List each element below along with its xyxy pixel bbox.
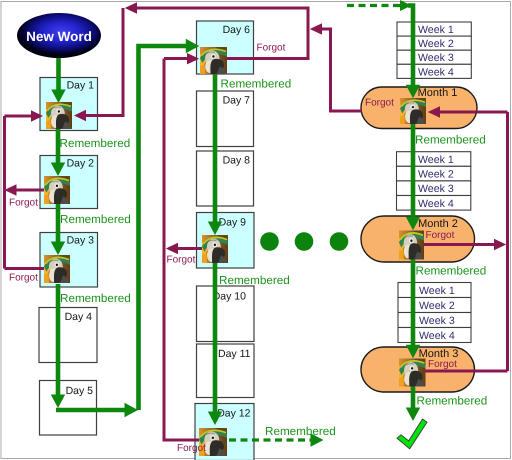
week table set 3 row Week 1 xyxy=(398,283,471,298)
wire right loop vertical xyxy=(506,112,509,371)
parrot icon Day 12 xyxy=(199,428,227,456)
week table set 2 row Week 1 xyxy=(397,152,471,167)
svg-text:Week 2: Week 2 xyxy=(418,38,454,50)
wire Day 2 to Day 3 xyxy=(56,204,61,243)
wire Day 12 forgot horizontal xyxy=(163,439,201,442)
svg-text:Forgot: Forgot xyxy=(9,198,38,209)
parrot icon Month 3 xyxy=(399,359,426,387)
day box Day 8 xyxy=(197,151,254,206)
wire into Day 1 from left xyxy=(5,115,33,118)
arrowhead Day 9 forgot pointing left xyxy=(166,243,178,254)
svg-text:Remembered: Remembered xyxy=(415,134,486,147)
arrowhead into Day 1 icon down xyxy=(51,90,65,104)
wire Day 3 forgot horizontal xyxy=(5,267,45,270)
wire Day 3 to Day 5 xyxy=(56,284,61,395)
svg-text:Week 3: Week 3 xyxy=(418,183,454,195)
svg-text:Day 1: Day 1 xyxy=(67,80,95,92)
svg-text:Remembered: Remembered xyxy=(417,395,488,408)
svg-text:Day 5: Day 5 xyxy=(66,385,94,397)
wire Month 1 to Month 2 xyxy=(411,124,416,218)
green dashed wires xyxy=(229,6,400,441)
week table set 3 row Week 3 xyxy=(398,313,471,328)
svg-text:Day 8: Day 8 xyxy=(223,155,251,167)
wire into Day 6 icon xyxy=(164,57,188,60)
svg-text:Forgot: Forgot xyxy=(365,98,394,109)
month stadium Month 2 xyxy=(361,216,475,262)
wire Day 2 forgot horizontal xyxy=(15,189,44,192)
svg-text:Week 4: Week 4 xyxy=(418,198,454,210)
ellipsis dot 1 xyxy=(260,232,279,251)
maroon arrowheads xyxy=(4,2,506,254)
svg-text:Forgot: Forgot xyxy=(428,359,457,370)
parrot icon Day 1 xyxy=(46,102,72,129)
arrowhead into Day 3 icon down xyxy=(51,242,65,256)
svg-text:Remembered: Remembered xyxy=(265,425,336,438)
day box Day 12 xyxy=(195,404,254,460)
week table set 2 row Week 3 xyxy=(397,181,471,196)
day box Day 5 xyxy=(40,381,97,436)
wire left loop vertical xyxy=(3,116,6,269)
ellipsis dot 3 xyxy=(330,232,349,251)
parrot icon Day 2 xyxy=(44,176,70,204)
day box Day 10 xyxy=(197,286,255,342)
svg-text:Week 3: Week 3 xyxy=(419,315,455,327)
svg-text:Day 12: Day 12 xyxy=(217,408,250,420)
svg-text:Forgot: Forgot xyxy=(9,273,38,284)
parrot icon Day 9 xyxy=(202,235,228,263)
week table set 1 row Week 1 xyxy=(397,22,471,36)
arrowhead into Day 1 icon from right xyxy=(74,110,86,121)
svg-text:Week 2: Week 2 xyxy=(418,169,454,181)
wire Month 2 forgot horizontal xyxy=(424,243,495,246)
arrowhead Month 2 forgot pointing right xyxy=(494,239,506,250)
arrowhead into Day 2 icon down xyxy=(51,163,65,177)
arrowhead into Day 1 icon from left xyxy=(31,110,43,121)
day box Day 1 xyxy=(40,78,98,131)
wire Day 1 to Day 2 xyxy=(56,129,61,163)
arrowhead into Day 9 icon down xyxy=(208,222,222,236)
week table set 1 row Week 3 xyxy=(397,50,471,64)
day box Day 4 xyxy=(39,308,97,363)
svg-text:Remembered: Remembered xyxy=(60,137,131,150)
svg-text:Forgot: Forgot xyxy=(167,255,196,266)
wire into Month 1 icon from right xyxy=(439,111,508,114)
checkmark done xyxy=(397,419,427,449)
arrowhead Day 5 out pointing right xyxy=(125,403,139,417)
day box Day 2 xyxy=(40,156,98,209)
wire right column top elbow xyxy=(408,6,413,86)
day box Day 6 xyxy=(197,21,254,74)
wire mid loop vertical Day12 to Day6 xyxy=(163,59,166,441)
svg-text:Month 2: Month 2 xyxy=(418,218,458,230)
day box Day 9 xyxy=(197,213,255,269)
wire Day 5 out to feeder xyxy=(56,408,125,413)
month stadium Month 3 xyxy=(361,347,475,392)
arrowhead into Month 2 icon down xyxy=(406,217,420,230)
svg-text:Week 2: Week 2 xyxy=(419,300,455,312)
week table set 3 row Week 2 xyxy=(398,298,471,313)
svg-text:Forgot: Forgot xyxy=(177,443,206,454)
wire Month 1 forgot to Day 6 loop xyxy=(321,29,362,111)
svg-text:Day 10: Day 10 xyxy=(213,291,246,303)
svg-text:Week 1: Week 1 xyxy=(418,154,454,166)
arrowhead into Month 1 icon down xyxy=(406,85,420,98)
week table set 2 row Week 4 xyxy=(397,196,471,211)
wire Day 9 forgot horizontal xyxy=(177,247,203,250)
parrot icon Month 2 xyxy=(399,231,424,260)
svg-text:Remembered: Remembered xyxy=(60,213,131,226)
wire Month 3 forgot horizontal xyxy=(426,370,508,373)
svg-text:Week 4: Week 4 xyxy=(419,330,455,342)
arrowhead into Day 6 icon pointing right xyxy=(187,53,199,64)
svg-text:Day 2: Day 2 xyxy=(67,158,95,170)
svg-text:Remembered: Remembered xyxy=(60,292,131,305)
arrowhead top line pointing left into Day 1 feeder xyxy=(125,2,137,13)
wire Day 6 forgot up and left to Day 1 feeder xyxy=(136,8,308,59)
arrowhead into Month 1 icon pointing left xyxy=(428,106,440,117)
arrowhead into Day 12 down xyxy=(208,412,222,426)
svg-text:Week 4: Week 4 xyxy=(418,66,454,78)
arrowhead Day 2 forgot pointing left xyxy=(4,184,16,195)
arrowhead Day 12 dashed pointing right xyxy=(311,433,324,446)
wire New Word to Day 1 xyxy=(56,57,61,90)
ellipsis dot 2 xyxy=(295,232,314,251)
parrot icon Day 6 xyxy=(200,47,227,74)
arrowhead into Month 3 icon down xyxy=(406,345,420,358)
start ellipse New Word xyxy=(17,13,101,58)
svg-text:Remembered: Remembered xyxy=(221,78,292,91)
svg-text:Day 9: Day 9 xyxy=(219,217,247,229)
svg-text:Week 1: Week 1 xyxy=(418,24,454,36)
day box Day 7 xyxy=(197,91,254,147)
week table set 3 row Week 4 xyxy=(398,328,471,343)
arrowhead final down to checkmark xyxy=(406,408,420,422)
wire Month 2 to Month 3 xyxy=(411,259,416,346)
day box Day 3 xyxy=(40,233,98,288)
wire Day 1 feeder vertical and into icon xyxy=(86,8,123,116)
wire feeder up to Day 6 xyxy=(139,46,187,410)
svg-text:Week 3: Week 3 xyxy=(418,52,454,64)
svg-text:Day 11: Day 11 xyxy=(218,348,251,360)
parrot icon Month 1 xyxy=(400,98,426,124)
svg-text:New Word: New Word xyxy=(26,29,92,44)
svg-text:Week 1: Week 1 xyxy=(419,285,455,297)
arrowhead dashed top pointing right xyxy=(400,0,412,11)
month stadium Month 1 xyxy=(361,87,477,129)
week table set 1 row Week 4 xyxy=(397,64,471,78)
arrowhead Month 1 forgot pointing left xyxy=(310,23,322,34)
wire dashed top to Week 1 xyxy=(347,4,400,7)
arrowhead into Day 5 down xyxy=(51,395,65,409)
week table set 1 row Week 2 xyxy=(397,36,471,50)
svg-text:Remembered: Remembered xyxy=(416,265,487,278)
wire Day 6 to Day 9 xyxy=(213,74,218,223)
arrowhead into Day 6 pointing right xyxy=(186,39,199,53)
svg-text:Day 4: Day 4 xyxy=(65,311,93,323)
parrot icon Day 3 xyxy=(44,255,70,283)
wire dashed Day 12 remembered xyxy=(229,438,311,441)
day box Day 11 xyxy=(197,344,255,398)
wire Day 9 to Day 12 xyxy=(213,262,218,413)
week table set 2 row Week 2 xyxy=(397,166,471,181)
svg-text:Day 6: Day 6 xyxy=(223,24,251,36)
svg-text:Forgot: Forgot xyxy=(426,230,455,241)
svg-text:Remembered: Remembered xyxy=(219,274,290,287)
wire Month 3 to checkmark xyxy=(411,386,416,409)
svg-text:Day 7: Day 7 xyxy=(223,95,251,107)
green remembered wires xyxy=(56,6,413,413)
green arrowheads xyxy=(51,0,420,447)
svg-text:Month 1: Month 1 xyxy=(418,87,458,99)
svg-text:Forgot: Forgot xyxy=(257,43,286,54)
svg-text:Day 3: Day 3 xyxy=(67,235,95,247)
